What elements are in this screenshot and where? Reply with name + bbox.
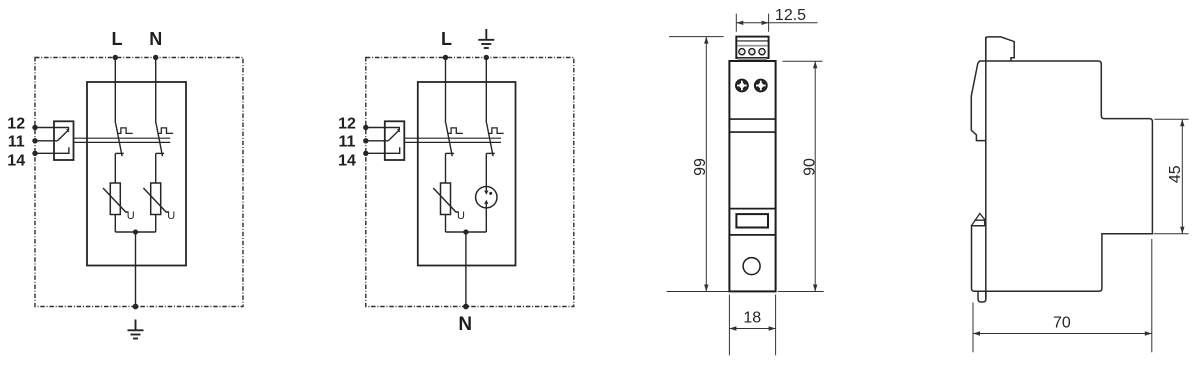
varistor RV2 <box>143 183 169 215</box>
wire N down <box>465 232 467 307</box>
svg-text:12.5: 12.5 <box>775 7 806 24</box>
varistor RV3 <box>433 183 459 215</box>
dim 12.5 arrows <box>736 21 743 25</box>
wire RV2 bottom <box>155 215 157 233</box>
svg-text:N: N <box>149 29 162 49</box>
wire common bus <box>446 231 487 233</box>
svg-text:L: L <box>112 29 123 49</box>
ground symbol <box>128 320 144 339</box>
svg-text:14: 14 <box>7 153 25 170</box>
node N junction <box>463 229 468 234</box>
body seam line 2 <box>729 131 775 133</box>
screw left <box>736 80 748 92</box>
window section line bottom <box>729 234 775 236</box>
disconnector (thermal) on earth branch <box>486 123 503 156</box>
dim 70 <box>973 239 1152 352</box>
disconnector (thermal) on N <box>156 123 173 156</box>
wire L <box>445 58 447 124</box>
wire L to varistor <box>114 153 116 183</box>
node earth terminal <box>484 55 489 60</box>
remote contact S2 <box>363 121 501 160</box>
node PE at enclosure <box>133 304 139 310</box>
wire RV1 bottom <box>114 215 116 233</box>
dim 45 <box>1154 119 1189 234</box>
DIN clip upper <box>971 61 986 141</box>
test button <box>743 258 760 275</box>
wire N to varistor <box>155 153 157 183</box>
terminal block <box>736 37 768 61</box>
svg-text:11: 11 <box>8 134 25 151</box>
screw right <box>755 80 767 92</box>
dim 90 <box>778 61 824 291</box>
svg-text:18: 18 <box>743 310 761 327</box>
wire L to varistor <box>445 153 447 183</box>
svg-text:U: U <box>167 210 175 222</box>
earth terminal symbol (top) <box>478 29 494 48</box>
remote contact S1 <box>32 121 170 160</box>
gas discharge tube GDT1 <box>476 153 497 232</box>
left main edge <box>985 37 987 299</box>
DIN clip lower triangle <box>971 214 984 226</box>
DIN clip lower hook <box>978 291 986 302</box>
wire L <box>114 58 116 124</box>
disconnector (thermal) on L <box>446 123 463 156</box>
svg-text:99: 99 <box>692 158 709 176</box>
svg-text:11: 11 <box>339 134 356 151</box>
svg-text:70: 70 <box>1053 315 1071 332</box>
varistor RV1 <box>103 183 129 215</box>
svg-text:U: U <box>127 210 135 222</box>
svg-text:14: 14 <box>338 153 356 170</box>
SPD1 enclosure (dash-dot) <box>35 58 243 307</box>
dim 12.5 extension lines <box>736 14 768 32</box>
svg-text:45: 45 <box>1167 165 1184 183</box>
dim 99 <box>667 37 729 292</box>
SPD2 enclosure (dash-dot) <box>366 58 574 307</box>
svg-text:12: 12 <box>7 115 25 132</box>
node L terminal <box>113 55 118 60</box>
svg-text:12: 12 <box>338 115 356 132</box>
svg-text:L: L <box>441 29 452 49</box>
wire RV3 bottom <box>445 215 447 233</box>
wire common bus <box>115 231 155 233</box>
node N terminal <box>153 55 158 60</box>
svg-text:N: N <box>458 314 472 335</box>
disconnector (thermal) on L <box>115 123 132 156</box>
top terminal tab <box>986 37 1014 61</box>
node N at enclosure <box>463 304 469 310</box>
wire PE down <box>135 232 137 307</box>
node PE junction <box>133 229 138 234</box>
SPD2 module box <box>418 82 516 266</box>
wire earth branch <box>485 58 487 124</box>
svg-text:90: 90 <box>801 158 818 176</box>
SPD1 module box <box>87 82 186 266</box>
side body outline <box>979 61 1152 291</box>
node L terminal <box>443 55 448 60</box>
inspection window <box>736 214 768 227</box>
body seam line 1 <box>729 118 775 120</box>
dim 18 <box>729 295 775 356</box>
front body <box>729 61 775 291</box>
window section line top <box>729 208 775 210</box>
svg-text:U: U <box>457 210 465 222</box>
DIN clip lower body <box>972 226 986 292</box>
dim 12.5 line <box>736 22 817 24</box>
wire N <box>155 58 157 124</box>
